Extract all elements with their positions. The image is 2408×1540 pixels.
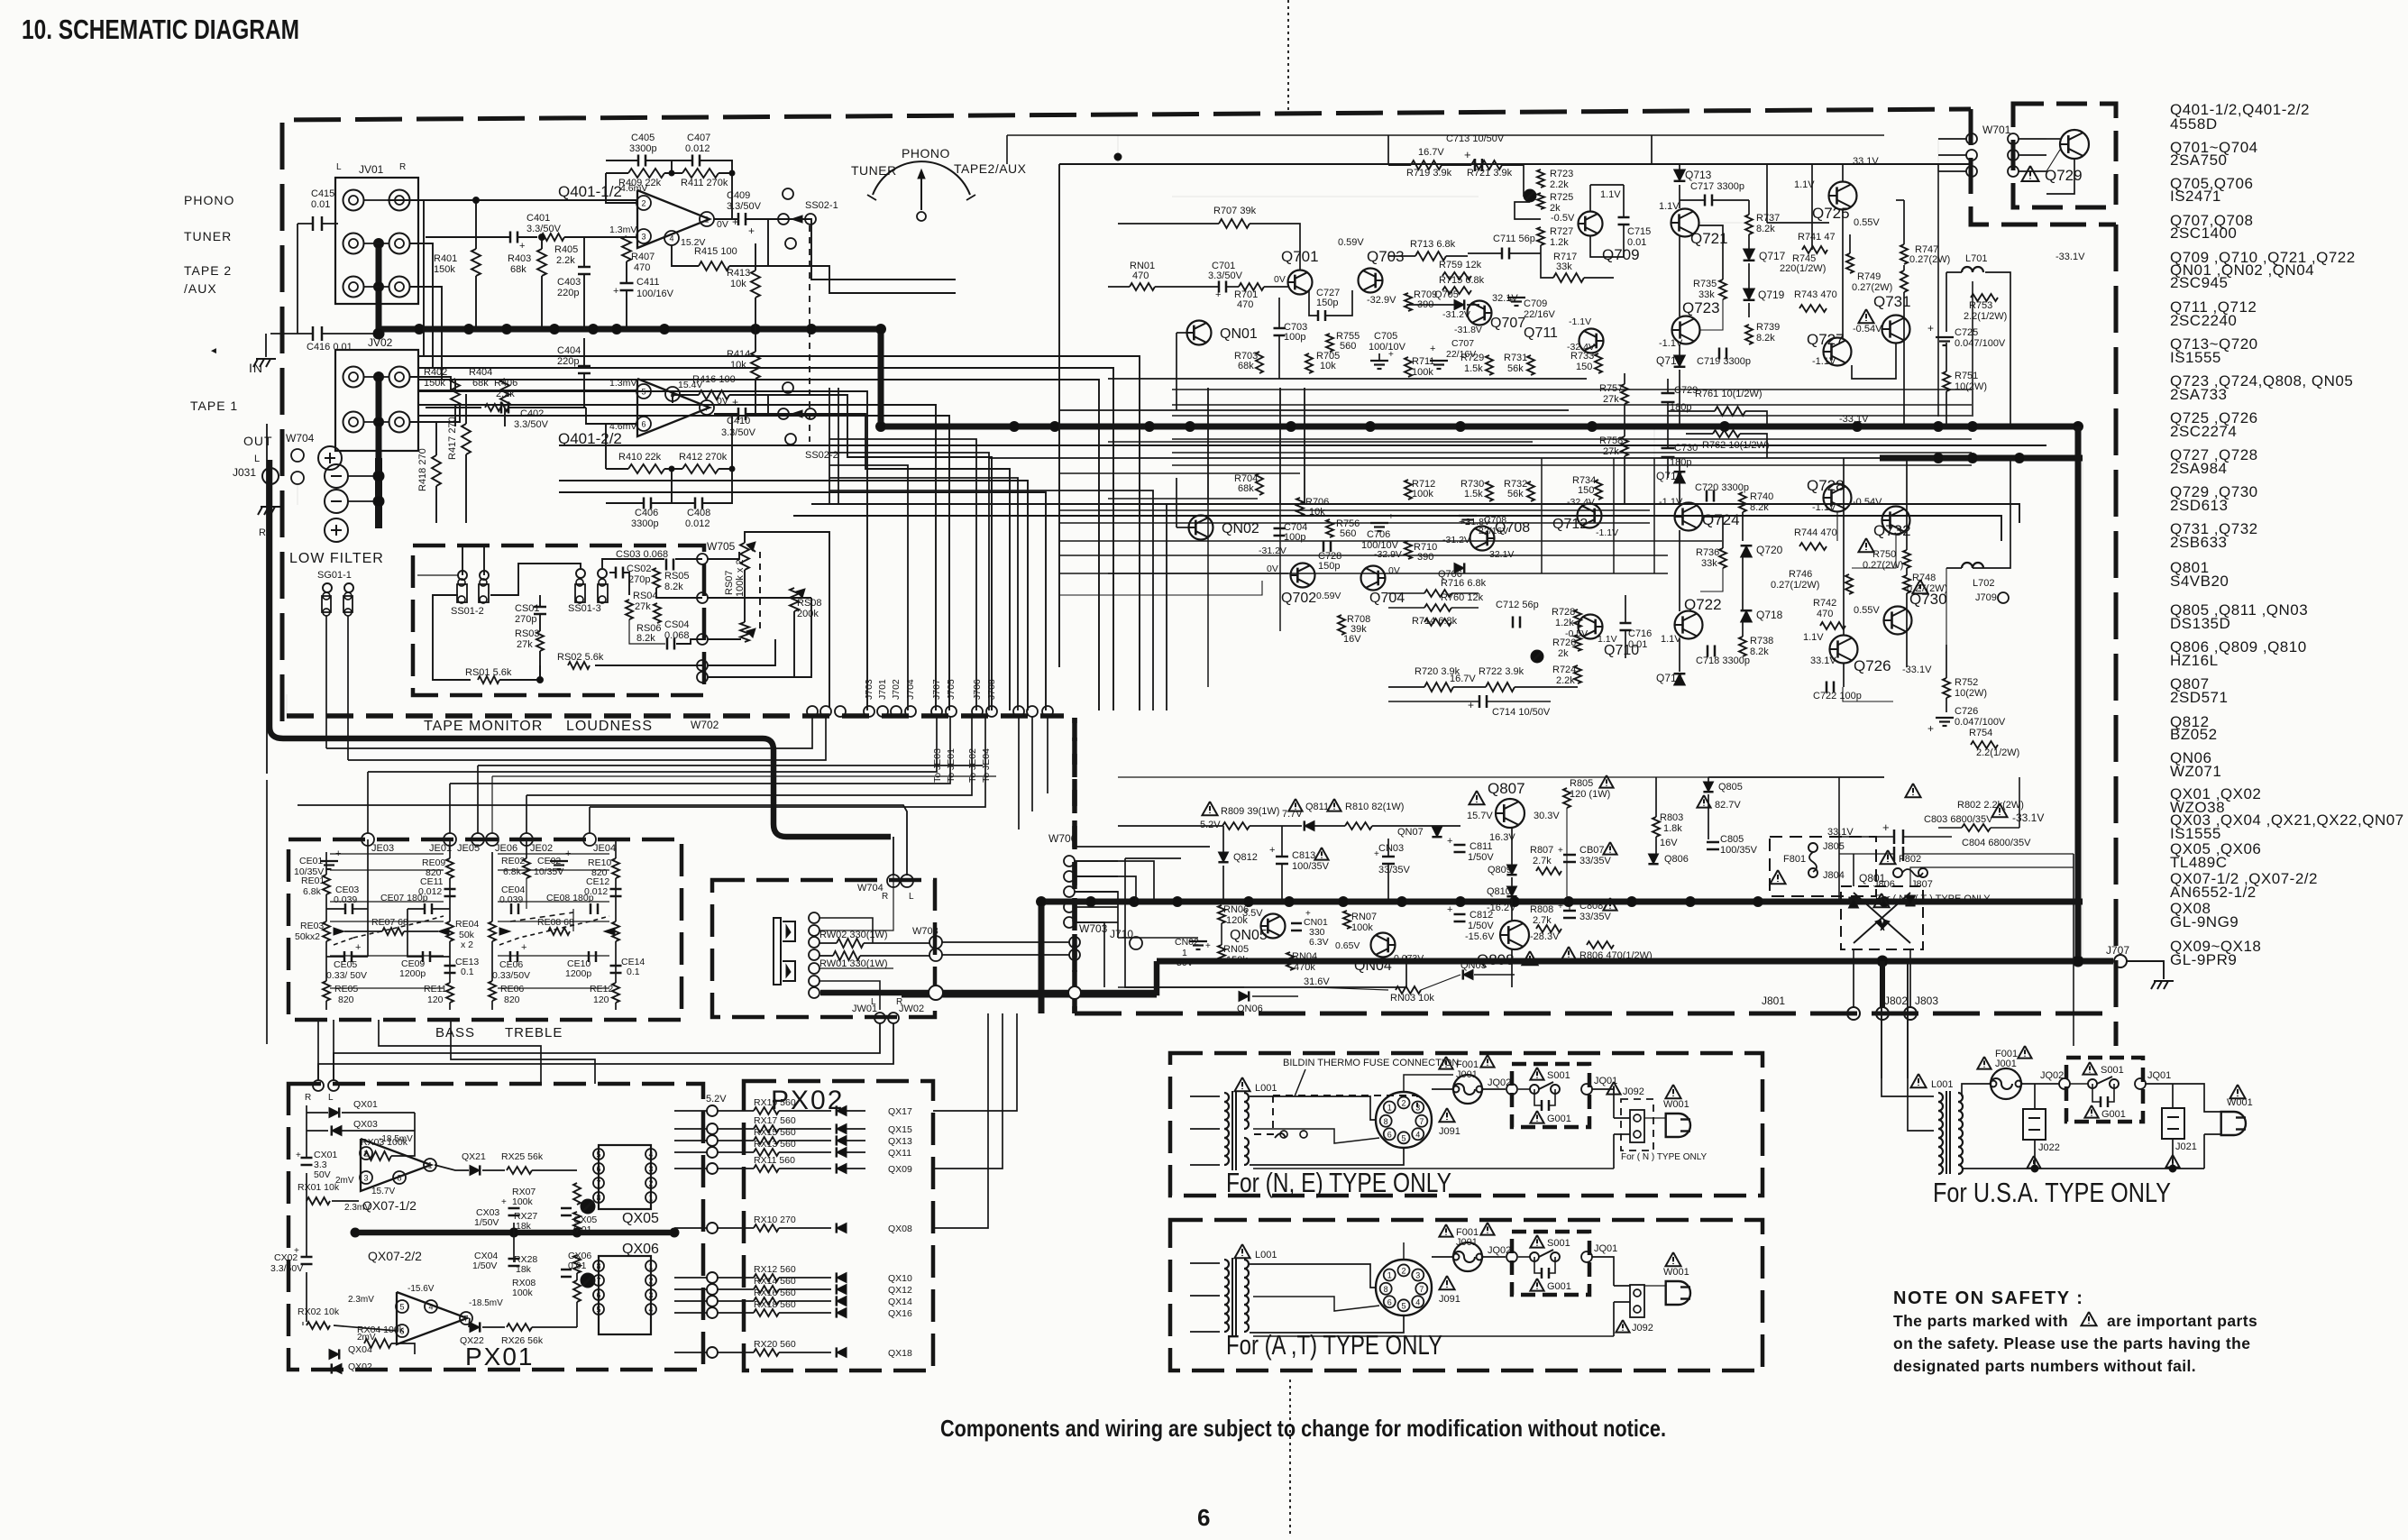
resistor RS02 xyxy=(568,662,590,669)
thick speaker return xyxy=(270,460,891,837)
svg-text:/AUX: /AUX xyxy=(184,281,217,296)
svg-text:R736: R736 xyxy=(1696,547,1719,558)
svg-text:Q810: Q810 xyxy=(1487,886,1511,897)
svg-text:2: 2 xyxy=(648,1277,653,1286)
svg-text:QX17: QX17 xyxy=(888,1106,912,1117)
svg-text:R403: R403 xyxy=(508,253,531,264)
svg-text:3.3/50V: 3.3/50V xyxy=(526,224,562,234)
jack wires JV01 xyxy=(364,199,389,201)
svg-text:0.33/50V: 0.33/50V xyxy=(492,970,530,981)
svg-text:Q723: Q723 xyxy=(1682,299,1720,316)
svg-text:2: 2 xyxy=(1401,1266,1405,1275)
svg-text:82.7V: 82.7V xyxy=(1715,800,1741,811)
resistor R413 xyxy=(751,270,760,298)
bass gang dashed xyxy=(334,938,353,945)
loudness switch SS01-2 xyxy=(458,571,467,580)
svg-text:J807: J807 xyxy=(1911,879,1933,890)
transistor QN02 xyxy=(1189,516,1213,540)
output wires right lower xyxy=(1843,458,1845,635)
svg-text:7: 7 xyxy=(596,1179,600,1188)
svg-text:QX08: QX08 xyxy=(888,1224,912,1234)
px01 top entries xyxy=(379,1020,541,1084)
svg-text:68k: 68k xyxy=(1238,361,1254,371)
svg-text:0.047/100V: 0.047/100V xyxy=(1955,338,2006,349)
headphone inner wires xyxy=(819,918,873,943)
resistor R738 xyxy=(1739,637,1746,656)
svg-text:designated parts numbers witho: designated parts numbers without fail. xyxy=(1893,1357,2196,1375)
svg-text:R739: R739 xyxy=(1756,322,1780,333)
svg-text:QX07-2/2: QX07-2/2 xyxy=(368,1249,422,1263)
svg-text:0V: 0V xyxy=(1274,274,1286,285)
svg-text:R742: R742 xyxy=(1813,598,1836,609)
capacitor C715 xyxy=(1618,216,1630,219)
svg-text:Q722: Q722 xyxy=(1684,596,1722,613)
transistor Q701 xyxy=(1288,270,1313,295)
resistor RS05 xyxy=(653,568,660,588)
svg-text:C707: C707 xyxy=(1451,338,1474,349)
jack board JV02 xyxy=(335,350,418,451)
transistor Q729 xyxy=(2060,130,2089,159)
svg-text:Q716: Q716 xyxy=(1656,470,1683,482)
second return wire xyxy=(298,805,907,875)
svg-text:8.2k: 8.2k xyxy=(1750,502,1769,513)
svg-text:6: 6 xyxy=(1387,1130,1392,1139)
headphone jack box xyxy=(712,880,935,1017)
svg-text:R728: R728 xyxy=(1552,607,1575,618)
transistor Q807 xyxy=(1496,799,1524,828)
svg-text:-1.1V: -1.1V xyxy=(1812,356,1836,367)
bass treble inner wires xyxy=(330,853,444,855)
svg-text:8: 8 xyxy=(596,1262,600,1271)
svg-text:2SA750: 2SA750 xyxy=(2170,151,2228,169)
svg-text:1.5k: 1.5k xyxy=(1464,489,1483,500)
resistor R806 xyxy=(1561,947,1575,959)
svg-text:2: 2 xyxy=(1401,1098,1405,1107)
svg-text:C808: C808 xyxy=(1579,901,1603,912)
svg-text:C405: C405 xyxy=(631,133,655,143)
svg-text:BILDIN THERMO FUSE CONNECTION: BILDIN THERMO FUSE CONNECTION xyxy=(1283,1058,1459,1068)
svg-text:5: 5 xyxy=(596,1150,600,1160)
long return wires to right xyxy=(811,504,2019,523)
svg-text:1/50V: 1/50V xyxy=(1468,852,1494,863)
diode Q714 xyxy=(1674,674,1686,685)
svg-text:3300p: 3300p xyxy=(631,518,659,529)
svg-text:1.1V: 1.1V xyxy=(1661,634,1681,645)
svg-text:R750: R750 xyxy=(1872,549,1896,560)
svg-text:C714 10/50V: C714 10/50V xyxy=(1492,707,1551,718)
svg-text:QX21: QX21 xyxy=(462,1151,486,1162)
svg-text:1/50V: 1/50V xyxy=(472,1260,497,1271)
power supply thick bus xyxy=(1041,899,2083,905)
svg-text:2SA733: 2SA733 xyxy=(2170,386,2228,403)
diode Q805 xyxy=(1703,782,1713,792)
svg-text:QX06: QX06 xyxy=(622,1242,659,1257)
svg-text:6: 6 xyxy=(596,1291,600,1300)
svg-text:32.1V: 32.1V xyxy=(1489,549,1514,560)
svg-text:1.3mV: 1.3mV xyxy=(609,225,636,235)
svg-text:56k: 56k xyxy=(1507,363,1524,374)
svg-text:J805: J805 xyxy=(1823,841,1845,852)
transistor Q702 xyxy=(1291,564,1315,588)
resistor R754 xyxy=(1971,741,1998,748)
top-right dashed box Q729 xyxy=(2013,104,2116,207)
transistor Q703 xyxy=(1359,269,1383,293)
svg-text:Q801: Q801 xyxy=(1859,872,1886,885)
page crease bottom xyxy=(1289,1380,1291,1537)
svg-text:R411 270k: R411 270k xyxy=(681,178,728,188)
transistor Q728 xyxy=(1824,484,1852,512)
svg-text:OUT: OUT xyxy=(243,434,273,448)
potentiometer RS07 xyxy=(740,543,749,570)
svg-text:C717 3300p: C717 3300p xyxy=(1690,181,1744,192)
svg-text:R752: R752 xyxy=(1955,677,1978,688)
svg-text:RE05: RE05 xyxy=(334,984,358,995)
svg-text:120 (1W): 120 (1W) xyxy=(1570,789,1610,800)
resistor R418 xyxy=(432,455,441,486)
svg-text:RX18 560: RX18 560 xyxy=(754,1299,796,1310)
svg-text:W703: W703 xyxy=(912,926,938,937)
svg-text:R713 6.8k: R713 6.8k xyxy=(1410,239,1456,250)
svg-text:8.2k: 8.2k xyxy=(664,582,683,592)
resistor R402 xyxy=(451,379,460,406)
svg-text:0.55V: 0.55V xyxy=(1854,217,1880,228)
svg-text:RS08: RS08 xyxy=(797,598,822,609)
svg-text:R724: R724 xyxy=(1552,665,1576,675)
svg-text:G001: G001 xyxy=(1547,1281,1571,1292)
svg-text:5: 5 xyxy=(1401,1133,1405,1142)
rail verticals right xyxy=(1937,171,1939,417)
svg-text:2SA984: 2SA984 xyxy=(2170,460,2228,477)
svg-text:CB07: CB07 xyxy=(1579,845,1605,856)
extra mesh verticals xyxy=(838,388,839,505)
svg-text:R725: R725 xyxy=(1550,192,1573,203)
svg-text:Q702: Q702 xyxy=(1281,591,1316,606)
svg-text:RX12 560: RX12 560 xyxy=(754,1264,796,1275)
svg-text:Q725: Q725 xyxy=(1812,205,1850,222)
svg-text:1.1V: 1.1V xyxy=(1598,634,1617,645)
svg-text:BZ052: BZ052 xyxy=(2170,726,2218,743)
svg-text:68k: 68k xyxy=(510,264,526,275)
svg-text:QN07: QN07 xyxy=(1397,827,1424,838)
zener Q812 xyxy=(1218,852,1228,862)
svg-text:C720 3300p: C720 3300p xyxy=(1695,482,1749,493)
svg-text:J021: J021 xyxy=(2175,1141,2197,1152)
resistor R721 xyxy=(1471,160,1502,170)
svg-text:10k: 10k xyxy=(730,360,746,371)
svg-text:7: 7 xyxy=(463,1315,468,1324)
svg-text:-33.1V: -33.1V xyxy=(2012,811,2044,824)
svg-text:-33.1V: -33.1V xyxy=(2055,252,2085,262)
svg-text:RE11: RE11 xyxy=(424,984,447,995)
thick bus right verticals xyxy=(2075,426,2082,961)
capacitor CB07 xyxy=(1563,854,1576,857)
svg-text:L001: L001 xyxy=(1255,1250,1277,1260)
svg-text:150k: 150k xyxy=(1226,955,1248,966)
svg-text:R807: R807 xyxy=(1530,845,1553,856)
capacitor C722 xyxy=(1826,682,1828,693)
svg-text:27k: 27k xyxy=(1603,446,1619,457)
svg-text:6: 6 xyxy=(1387,1297,1392,1306)
resistor R751 xyxy=(1943,371,1950,391)
nested corner wires right of SS02 xyxy=(829,439,976,710)
svg-text:4558D: 4558D xyxy=(2170,115,2218,133)
transistor Q727 xyxy=(1824,338,1852,366)
svg-text:RX16 560: RX16 560 xyxy=(754,1288,796,1298)
svg-text:R744 470: R744 470 xyxy=(1794,527,1837,538)
svg-text:Q726: Q726 xyxy=(1854,657,1891,674)
PX01 dashed box xyxy=(288,1084,703,1370)
svg-text:RE12: RE12 xyxy=(590,984,613,995)
svg-text:RS01 5.6k: RS01 5.6k xyxy=(465,667,512,678)
svg-text:J703: J703 xyxy=(864,679,874,700)
capacitor C716 xyxy=(1620,622,1632,625)
resistor R410 xyxy=(628,464,664,473)
svg-text:C705: C705 xyxy=(1374,331,1397,342)
svg-text:150: 150 xyxy=(1576,362,1592,372)
power section bottom dashed border xyxy=(1075,1012,2116,1016)
capacitor CS02 xyxy=(615,567,618,579)
svg-text:C402: C402 xyxy=(520,408,544,419)
USA J022 capacitor box xyxy=(2023,1109,2046,1140)
svg-text:C408: C408 xyxy=(687,508,710,518)
svg-text:CE01: CE01 xyxy=(299,856,323,866)
svg-text:-0.54V: -0.54V xyxy=(1853,497,1882,508)
transistor Q711 xyxy=(1579,329,1604,353)
svg-text:RE06: RE06 xyxy=(500,984,524,995)
svg-text:Q714: Q714 xyxy=(1656,672,1683,684)
preamp out bundle lower xyxy=(559,445,2046,446)
bass box feeds down xyxy=(367,772,369,833)
svg-text:RX01 10k: RX01 10k xyxy=(298,1182,340,1193)
svg-text:J031: J031 xyxy=(233,466,256,479)
svg-text:HZ16L: HZ16L xyxy=(2170,652,2219,669)
For A,T type dashed box xyxy=(1170,1220,1763,1370)
svg-text:5.2V: 5.2V xyxy=(1200,820,1221,830)
svg-text:3.3/50V: 3.3/50V xyxy=(727,201,762,212)
svg-text:JE03: JE03 xyxy=(371,843,394,854)
svg-text:-0.54V: -0.54V xyxy=(1853,324,1882,335)
thick headphone bus xyxy=(820,961,1157,993)
svg-text:QX02: QX02 xyxy=(348,1361,372,1372)
svg-text:100k: 100k xyxy=(1412,367,1433,378)
svg-text:0.55V: 0.55V xyxy=(1854,605,1880,616)
svg-text:C712 56p: C712 56p xyxy=(1496,600,1539,610)
resistor R403 xyxy=(537,249,546,276)
jack wires JV02 xyxy=(364,376,389,378)
svg-text:Q401-1/2: Q401-1/2 xyxy=(558,183,622,200)
svg-text:2SC945: 2SC945 xyxy=(2170,274,2228,291)
svg-text:RX19 560: RX19 560 xyxy=(754,1097,796,1108)
svg-text:0.33/ 50V: 0.33/ 50V xyxy=(326,970,367,981)
svg-text:J705: J705 xyxy=(946,679,957,700)
svg-text:+: + xyxy=(1558,902,1563,912)
svg-text:J803: J803 xyxy=(1915,995,1938,1007)
W702 to px area verticals xyxy=(1018,717,1020,830)
svg-text:W704: W704 xyxy=(857,883,884,894)
svg-text:2.7k: 2.7k xyxy=(1533,915,1552,926)
svg-text:x 2: x 2 xyxy=(461,940,473,950)
svg-text:QX03: QX03 xyxy=(353,1119,378,1130)
resistor RS01 xyxy=(478,676,499,683)
svg-text:R716 6.8k: R716 6.8k xyxy=(1441,578,1487,589)
svg-text:470: 470 xyxy=(1132,270,1149,281)
thin 508 rail xyxy=(989,457,1880,459)
resistor R810 xyxy=(1327,799,1341,811)
loudness switch SS01-3 xyxy=(576,569,585,578)
svg-text:-31.2V: -31.2V xyxy=(1442,309,1470,320)
svg-text:J091: J091 xyxy=(1439,1126,1460,1137)
connector J092 NE xyxy=(1621,1099,1653,1150)
svg-text:RX20 560: RX20 560 xyxy=(754,1339,796,1350)
svg-text:100/35V: 100/35V xyxy=(1292,861,1330,872)
svg-text:820: 820 xyxy=(338,995,354,1005)
inductor L702 xyxy=(1962,563,1983,568)
svg-text:C401: C401 xyxy=(526,213,550,224)
svg-text:QX05: QX05 xyxy=(622,1211,659,1226)
svg-text:R810 82(1W): R810 82(1W) xyxy=(1345,802,1404,812)
svg-text:R722 3.9k: R722 3.9k xyxy=(1479,666,1524,677)
svg-text:100p: 100p xyxy=(1284,332,1305,343)
svg-text:22/16V: 22/16V xyxy=(1524,309,1556,320)
svg-text:R743 470: R743 470 xyxy=(1794,289,1837,300)
svg-text:J092: J092 xyxy=(1632,1323,1653,1334)
svg-text:2SC2274: 2SC2274 xyxy=(2170,423,2237,440)
svg-text:W001: W001 xyxy=(1663,1267,1689,1278)
svg-text:0.27(1/2W): 0.27(1/2W) xyxy=(1771,580,1819,591)
wires NE xyxy=(1482,1088,1506,1090)
svg-text:6: 6 xyxy=(641,420,645,429)
svg-text:+: + xyxy=(521,942,526,953)
svg-text:3.3/50V: 3.3/50V xyxy=(1208,270,1243,281)
treble verticals xyxy=(491,852,493,921)
left edge vertical wires xyxy=(266,424,268,774)
svg-text:100p: 100p xyxy=(1284,532,1305,543)
svg-text:-0.5V: -0.5V xyxy=(1551,213,1575,224)
svg-text:C406: C406 xyxy=(635,508,658,518)
svg-text:RW02 330(1W): RW02 330(1W) xyxy=(819,930,888,940)
svg-text:6: 6 xyxy=(1197,1504,1210,1531)
svg-text:QX11: QX11 xyxy=(888,1148,911,1159)
capacitor C803 xyxy=(1905,784,1920,797)
svg-text:QX14: QX14 xyxy=(888,1297,912,1307)
svg-text:-15.6V: -15.6V xyxy=(1465,931,1495,942)
svg-text:TAPE MONITOR: TAPE MONITOR xyxy=(424,719,543,734)
plug W001 AT xyxy=(1665,1252,1680,1266)
loudness dashed box xyxy=(413,545,704,695)
svg-text:F802: F802 xyxy=(1899,854,1921,865)
svg-text:1/50V: 1/50V xyxy=(474,1217,499,1228)
svg-text:0.59V: 0.59V xyxy=(1316,591,1341,601)
capacitor C718 xyxy=(1707,646,1709,657)
svg-text:For U.S.A. TYPE ONLY: For U.S.A. TYPE ONLY xyxy=(1933,1177,2171,1208)
svg-text:150: 150 xyxy=(1578,485,1594,496)
svg-text:33/35V: 33/35V xyxy=(1579,856,1612,866)
svg-text:RS03: RS03 xyxy=(515,628,540,639)
svg-text:56k: 56k xyxy=(1507,489,1524,500)
svg-text:+: + xyxy=(1927,322,1934,335)
svg-text:RS05: RS05 xyxy=(664,571,690,582)
svg-text:7: 7 xyxy=(1419,1117,1424,1126)
USA fuse F001 xyxy=(1977,1057,1991,1069)
svg-text:+: + xyxy=(1388,512,1394,522)
svg-text:+: + xyxy=(1205,941,1211,951)
resistor R809 xyxy=(1202,802,1217,815)
amp top verticals xyxy=(1651,135,1653,164)
wires from jacks to bundle xyxy=(410,200,424,356)
svg-text:31.6V: 31.6V xyxy=(1304,976,1330,987)
svg-text:R746: R746 xyxy=(1789,569,1812,580)
svg-text:RX10 270: RX10 270 xyxy=(754,1215,796,1225)
svg-text:J709: J709 xyxy=(1975,592,1997,603)
transistor Q722 xyxy=(1675,611,1703,639)
svg-text:R803: R803 xyxy=(1660,812,1683,823)
headphone to PX01 wires xyxy=(334,1023,880,1080)
capacitor C813 xyxy=(1276,856,1288,858)
svg-text:-33.1V: -33.1V xyxy=(1839,414,1869,425)
svg-text:1: 1 xyxy=(1387,1104,1392,1113)
svg-text:8.2k: 8.2k xyxy=(1756,333,1775,344)
power supply hwires xyxy=(1118,937,1198,939)
capacitor C703 xyxy=(1274,327,1286,330)
svg-text:G001: G001 xyxy=(1547,1114,1571,1124)
svg-text:RE03: RE03 xyxy=(300,921,324,931)
svg-text:30.3V: 30.3V xyxy=(1534,811,1560,821)
USA feed wires from bridge xyxy=(1881,961,1882,1078)
resistor RS04 xyxy=(626,600,633,619)
svg-text:2SD613: 2SD613 xyxy=(2170,497,2228,514)
svg-text:Q727: Q727 xyxy=(1807,331,1845,348)
svg-text:0.01: 0.01 xyxy=(1628,639,1647,650)
svg-text:C812: C812 xyxy=(1470,910,1493,921)
svg-text:5: 5 xyxy=(399,1303,404,1312)
px02 left connect wires xyxy=(674,1110,707,1112)
svg-text:-31.2V: -31.2V xyxy=(1442,535,1470,545)
svg-text:-31.8V: -31.8V xyxy=(1454,325,1482,335)
resistor RS06 xyxy=(654,603,661,623)
svg-text:QX12: QX12 xyxy=(888,1285,912,1296)
main preamp block dashed border xyxy=(282,109,1971,721)
svg-text:4: 4 xyxy=(669,234,673,243)
svg-text:+: + xyxy=(732,396,738,408)
svg-text:For (N, E) TYPE ONLY: For (N, E) TYPE ONLY xyxy=(1226,1167,1451,1198)
svg-text:+: + xyxy=(1388,350,1394,360)
svg-text:-18.5mV: -18.5mV xyxy=(379,1134,413,1144)
svg-text:Q701: Q701 xyxy=(1281,248,1319,265)
svg-text:QX13: QX13 xyxy=(888,1136,912,1147)
px02 to power wires xyxy=(933,1013,1017,1111)
bridge connections xyxy=(1853,854,1854,886)
svg-text:3.3/50V: 3.3/50V xyxy=(721,427,756,438)
treble dashed gang xyxy=(510,912,573,921)
svg-text:+: + xyxy=(1468,699,1474,711)
svg-text:R409 22k: R409 22k xyxy=(618,178,662,188)
svg-text:1.2k: 1.2k xyxy=(1550,237,1569,248)
svg-text:For (A ,T) TYPE ONLY: For (A ,T) TYPE ONLY xyxy=(1226,1329,1442,1361)
svg-text:GL-9NG9: GL-9NG9 xyxy=(2170,913,2239,930)
amp channel long wires xyxy=(1108,441,1533,443)
svg-text:R: R xyxy=(259,527,266,538)
svg-text:C722 100p: C722 100p xyxy=(1813,691,1862,701)
svg-text:R727: R727 xyxy=(1550,226,1573,237)
svg-text:J702: J702 xyxy=(891,679,902,700)
svg-text:4: 4 xyxy=(648,1306,653,1315)
svg-text:J707: J707 xyxy=(931,679,942,700)
svg-text:TAPE 2: TAPE 2 xyxy=(184,263,232,278)
svg-text:W705: W705 xyxy=(707,540,736,553)
bridge Q801 box xyxy=(1841,886,1923,949)
svg-text:JQ01: JQ01 xyxy=(1594,1243,1617,1254)
svg-text:CS04: CS04 xyxy=(664,619,690,630)
